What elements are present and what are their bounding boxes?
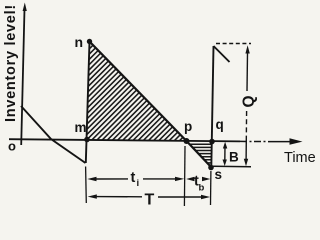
node s [208, 165, 214, 171]
extension line below p [183, 146, 186, 206]
node n [87, 39, 92, 44]
svg-text:Inventory level!: Inventory level! [3, 4, 19, 122]
y-axis arrowhead [23, 3, 27, 12]
s-level horizontal line [213, 165, 251, 168]
Q dimension line (bottom part) [245, 111, 247, 140]
extension line below q/s [210, 171, 212, 205]
x-axis arrowhead [290, 138, 303, 144]
svg-text:b: b [199, 183, 205, 194]
y-axis [21, 9, 24, 145]
hatching of small triangle p-q-s [190, 144, 212, 163]
svg-text:Q: Q [241, 95, 258, 107]
svg-text:p: p [184, 119, 192, 134]
svg-text:q: q [216, 117, 224, 132]
replenishment vertical q (s up to top) [211, 46, 213, 168]
next cycle consumption line [214, 46, 230, 62]
consumption line n-p (hypotenuse) [90, 42, 187, 142]
t_i dimension arrow [87, 177, 96, 181]
node q [209, 139, 215, 145]
svg-text:i: i [137, 178, 140, 189]
T dimension arrow [88, 194, 97, 198]
shortage line p-s [187, 141, 212, 168]
svg-text:s: s [215, 167, 223, 182]
svg-text:B: B [229, 150, 239, 165]
initial inventory depletion line [21, 106, 86, 163]
svg-text:m: m [75, 120, 87, 135]
x-axis dashed continuation [240, 140, 272, 142]
svg-text:t: t [131, 170, 136, 186]
svg-text:o: o [8, 139, 16, 154]
svg-text:Time: Time [284, 150, 316, 166]
Q dimension line (top part) [245, 45, 249, 53]
x-axis [9, 139, 240, 141]
extension line below m [85, 167, 88, 204]
node p [184, 138, 190, 144]
svg-text:T: T [145, 192, 155, 209]
B dimension arrow [224, 146, 226, 162]
node m [84, 137, 90, 143]
svg-text:n: n [75, 34, 84, 50]
replenishment vertical m-n [86, 42, 90, 164]
hatching of triangle n-m-p [0, 30, 295, 170]
dashed top level line [216, 43, 251, 45]
t_b dimension arrow [186, 177, 194, 181]
